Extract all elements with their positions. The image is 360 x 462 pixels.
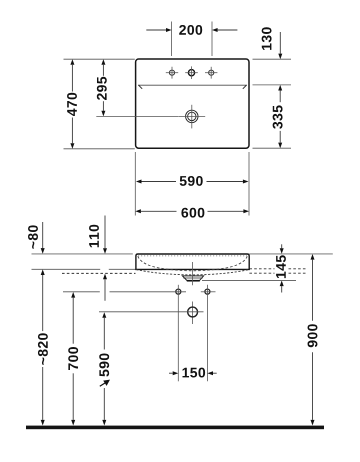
drain center line (vertical): [192, 262, 194, 285]
dimension 600 (overall width): [135, 208, 249, 218]
rim height reference line (900 level) left: [32, 253, 133, 255]
drain fitting below basin: [182, 276, 203, 281]
leader arrow beside 590: [100, 380, 110, 387]
fixing bolt hole right: [205, 289, 210, 294]
deck chamfer tick left: [138, 85, 142, 89]
rim height reference line (900 level) right: [249, 253, 333, 255]
dimension 900 (floor to rim line): [308, 254, 318, 426]
hidden line left (dashed): [62, 272, 136, 274]
dimension ~820 (floor to countertop): [38, 269, 48, 425]
dimension 590 (bowl width): [135, 152, 249, 216]
dimension 130 (back edge to deck line): [253, 27, 292, 59]
deck chamfer tick right: [243, 85, 247, 89]
floor line: [26, 426, 324, 430]
dimension 110 (basin height): [89, 216, 107, 301]
hidden lines right of basin (dashed): [249, 269, 307, 273]
dimension 335 (deck line to front edge): [253, 85, 292, 148]
dimension 145 (rim line to outlet fitting): [202, 244, 296, 292]
faucet hole center (tap hole): [185, 66, 198, 79]
dimension 700 (floor to fixing bolts): [68, 292, 78, 426]
dimension 470 (overall depth): [64, 59, 135, 149]
basin profile (elevation): [136, 254, 249, 275]
faucet hole left (pre-punched): [166, 67, 178, 79]
basin outline (plan view): [136, 59, 249, 148]
fixing bolt hole left: [176, 289, 181, 294]
waste water outlet circle: [188, 307, 198, 317]
drain opening (plan): [179, 105, 206, 129]
faucet hole right (pre-punched): [205, 67, 217, 79]
dimension ~80 (rim line to countertop): [28, 222, 45, 254]
dimension 295 (back edge to drain center): [96, 59, 178, 116]
bolt hole vertical lines: [177, 285, 179, 382]
dimension 200 (tap hole spacing): [146, 22, 237, 57]
dimension 590 (floor to outlet): [99, 312, 109, 425]
bolt holes horizontal center line: [63, 291, 100, 293]
back deck line (plan): [138, 84, 247, 86]
outlet horizontal center line: [99, 311, 204, 313]
dimension 150 (bolt hole spacing): [169, 368, 217, 378]
countertop line (~820 level): [32, 268, 101, 270]
